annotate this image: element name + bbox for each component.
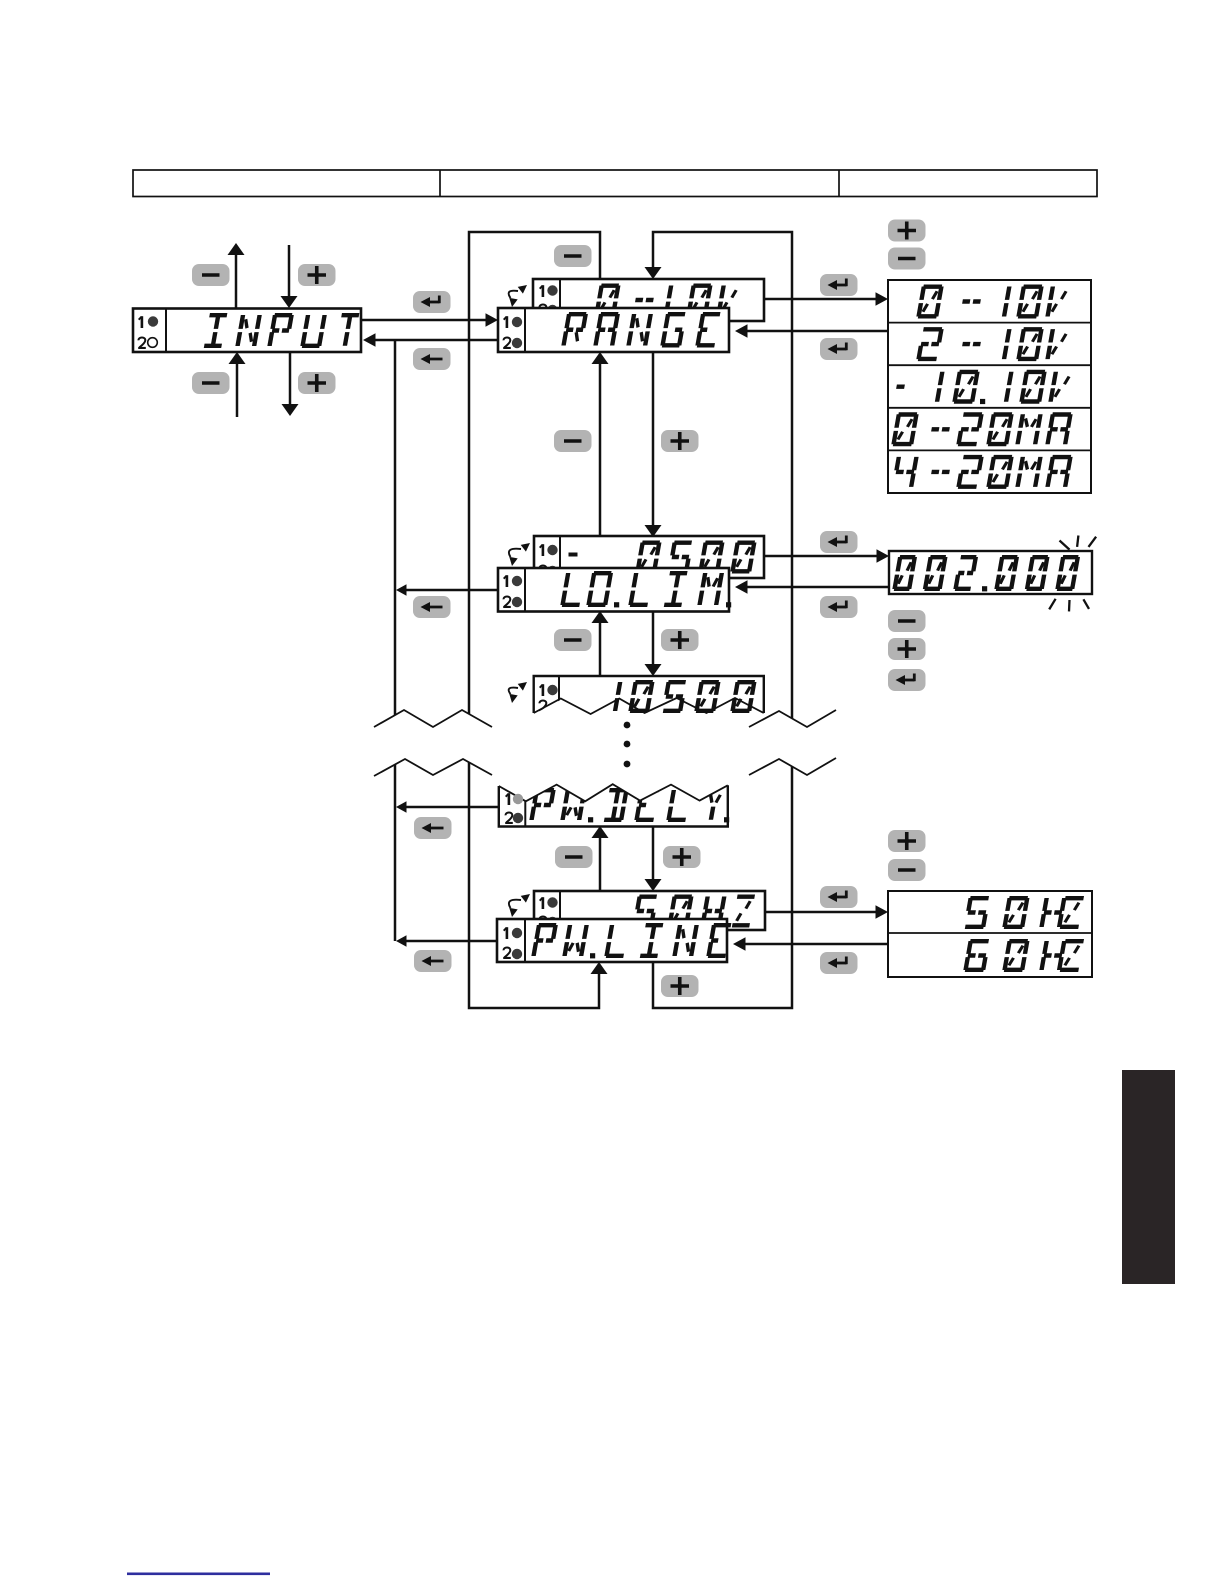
wire down LO.LIM to next level: [645, 611, 662, 676]
display -0500 back text: [637, 543, 755, 572]
tear band left: [374, 710, 492, 776]
display LO.LIM box: [498, 568, 729, 612]
display LO.LIM text: [562, 573, 731, 607]
option row 4-20MA: [893, 457, 1070, 487]
arrow up into INPUT bottom: [229, 352, 246, 417]
display 0-10V back text: [596, 286, 737, 315]
button minus below INPUT: [192, 372, 230, 394]
display INPUT text: [204, 315, 359, 346]
button minus RANGE-LOLIM: [554, 430, 592, 452]
wire up PW.DELY from 50HZ level: [592, 826, 609, 891]
wire down PW.DELY to PW.LINE level: [645, 826, 662, 891]
arrow down into INPUT top: [281, 245, 298, 308]
button minus top of left loop: [554, 245, 592, 267]
button minus options RANGE: [888, 248, 926, 270]
button left PWLINE return: [414, 950, 452, 972]
display -0500 back box: [534, 536, 764, 578]
display -0500 minus sign: [569, 553, 578, 557]
option row -10.10V: [897, 372, 1070, 404]
button plus options PWLINE: [888, 830, 926, 852]
button minus options PWLINE: [888, 859, 926, 881]
button enter RANGE-options: [820, 274, 858, 296]
option row 50HZ: [965, 898, 1083, 927]
display PW.DELY labels: [505, 793, 525, 826]
button plus RANGE-LOLIM: [661, 430, 699, 452]
wire PW.LINE to options list 2: [765, 905, 888, 919]
button plus options RANGE: [888, 220, 926, 242]
option row 60HZ: [965, 941, 1083, 970]
button minus PWDELY-PWLINE: [555, 846, 593, 868]
option row 0-10V: [918, 287, 1067, 317]
button enter edit-LOLIM: [820, 596, 858, 618]
button enter PWLINE-options: [820, 886, 858, 908]
display 10500 torn edge: [534, 698, 764, 714]
black side tab: [1122, 1070, 1175, 1284]
toggle arrow 10500 pair: [509, 682, 527, 703]
arrow up above INPUT: [228, 243, 245, 308]
display RANGE box: [498, 308, 729, 352]
display PW.LINE text: [533, 925, 731, 958]
button enter edit: [888, 669, 926, 691]
wire down RANGE to LO.LIM level: [645, 352, 662, 537]
toggle arrow RANGE pair: [509, 285, 527, 307]
button enter LOLIM-edit: [820, 531, 858, 553]
button plus edit: [888, 638, 926, 660]
wire edit box back to LO.LIM: [735, 580, 889, 594]
display PW.DELY box body: [499, 785, 728, 826]
button plus bottom of right loop: [661, 975, 699, 997]
wire LO.LIM return to trunk: [396, 584, 498, 596]
tear band right: [749, 710, 836, 775]
display 50HZ back box: [534, 891, 765, 930]
options table RANGE: [888, 280, 1091, 493]
wire PW.LINE return to trunk: [396, 935, 497, 947]
edit box 002.000 text: [894, 557, 1078, 591]
wire left wrap loop (minus from first menu to last): [469, 232, 608, 1008]
wire PW.DELY return to trunk: [396, 801, 499, 813]
arrow down below INPUT: [282, 352, 299, 416]
wire return trunk vertical: [394, 340, 397, 941]
button enter options-PWLINE: [820, 952, 858, 974]
blue footer rule: [127, 1573, 270, 1576]
display 0-10V back box: [533, 279, 764, 321]
button minus edit: [888, 610, 926, 632]
toggle arrow PW.LINE pair: [509, 894, 530, 917]
wire RANGE to options list: [764, 292, 888, 306]
options table PWLINE: [888, 891, 1092, 977]
display PW.DELY text: [531, 790, 729, 822]
wire up LO.LIM from next level: [592, 611, 609, 676]
button left PWDELY return: [414, 817, 452, 839]
ellipsis dots: [624, 722, 631, 768]
wire LO.LIM to edit box: [764, 549, 889, 563]
display INPUT box: [133, 309, 361, 353]
button enter options-RANGE: [820, 338, 858, 360]
wire options list back to RANGE: [735, 324, 888, 338]
edit box 002.000: [889, 551, 1092, 594]
wire up RANGE from LO.LIM level: [592, 352, 609, 537]
option row 0-20MA: [893, 414, 1071, 444]
wire right wrap loop (plus from last menu to first): [645, 232, 793, 1008]
option row 2-10V: [918, 329, 1067, 359]
button minus above INPUT: [192, 264, 230, 286]
button plus LOLIM-next: [661, 629, 699, 651]
button plus PWDELY-PWLINE: [663, 846, 701, 868]
button left LOLIM return: [413, 596, 451, 618]
wire RANGE to INPUT return: [363, 333, 498, 347]
button left RANGE-INPUT: [413, 348, 451, 370]
display 50HZ back text: [634, 897, 754, 926]
table header row: [133, 170, 1097, 197]
button enter INPUT-RANGE: [413, 291, 451, 313]
display PW.LINE box: [497, 919, 727, 962]
button minus LOLIM-next: [554, 629, 592, 651]
button plus above INPUT: [298, 264, 336, 286]
wire options 2 back to PW.LINE: [733, 937, 888, 951]
display 10500 text: [615, 682, 755, 711]
wire INPUT to RANGE: [361, 313, 498, 327]
display PW.DELY tear: [499, 772, 728, 801]
button plus below INPUT: [298, 372, 336, 394]
display 10500 torn box: [534, 676, 764, 717]
toggle arrow LO.LIM pair: [509, 543, 530, 566]
display RANGE text: [563, 314, 720, 346]
blink rays: [1049, 536, 1096, 612]
